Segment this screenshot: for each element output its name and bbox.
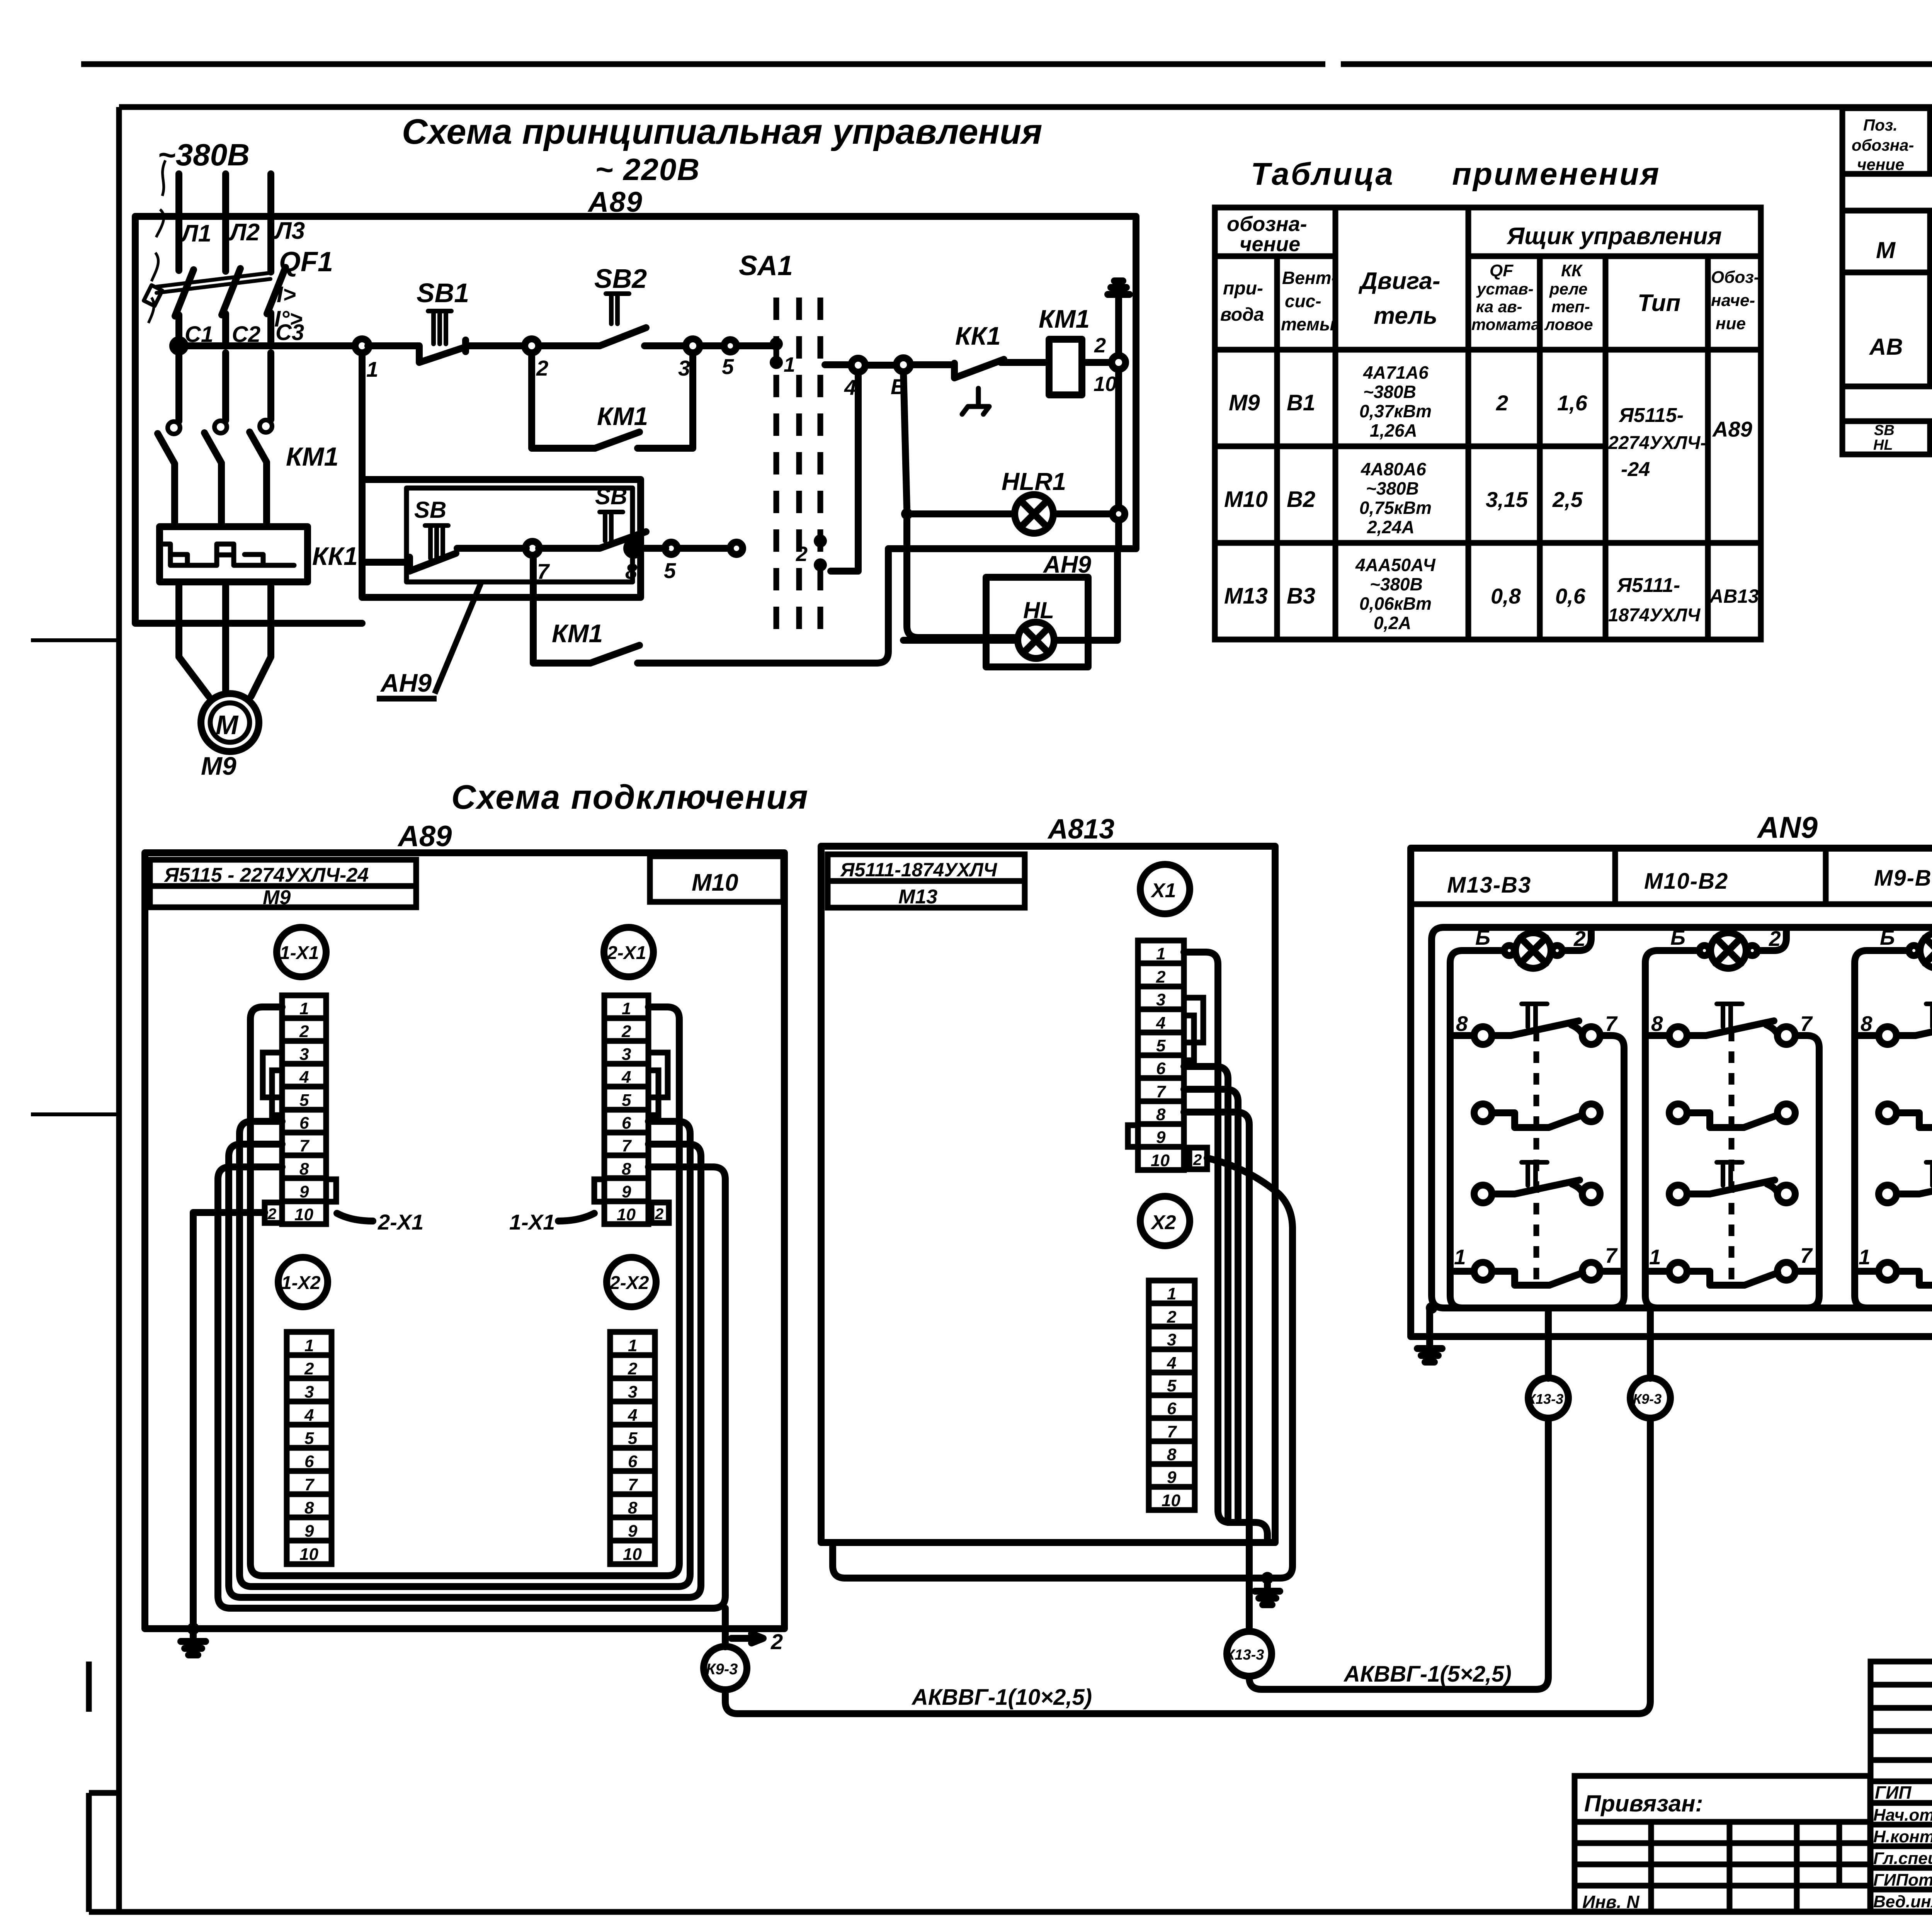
svg-text:SВ: SВ: [595, 483, 627, 509]
svg-text:2: 2: [299, 1022, 309, 1041]
local box AN9 with HL: [986, 577, 1088, 667]
node 8: [627, 541, 641, 555]
svg-text:КМ1: КМ1: [597, 402, 648, 430]
control bus wire: [185, 342, 355, 349]
svg-text:АН9: АН9: [1043, 551, 1092, 578]
mech link dashed М10-В2: [1729, 1030, 1735, 1287]
type label box Я5111: [828, 854, 1025, 908]
svg-text:5: 5: [1167, 1376, 1177, 1395]
svg-text:1: 1: [622, 999, 631, 1018]
svg-text:4: 4: [621, 1068, 631, 1087]
svg-text:тель: тель: [1374, 303, 1437, 329]
svg-text:~380В: ~380В: [158, 138, 250, 172]
svg-text:В2: В2: [1287, 487, 1315, 512]
svg-text:чение: чение: [1857, 155, 1904, 173]
wire SA1 to node 4: [825, 361, 851, 368]
wire Х1 terminal 2 sweep: [1207, 1158, 1293, 1578]
svg-text:6: 6: [1156, 1059, 1166, 1078]
svg-text:наче-: наче-: [1711, 291, 1755, 310]
lamp wires М9-В1: [1855, 927, 1932, 1308]
svg-text:2: 2: [1496, 391, 1508, 415]
svg-text:9: 9: [299, 1182, 309, 1201]
svg-text:1-Х1: 1-Х1: [280, 943, 319, 963]
coil KM1: [1049, 339, 1082, 395]
svg-text:2,24А: 2,24А: [1367, 517, 1415, 537]
svg-text:SВ1: SВ1: [417, 278, 469, 308]
lamp М9-В1: [1909, 933, 1932, 968]
svg-text:2-Х1: 2-Х1: [607, 943, 646, 963]
phase wire Л3: [267, 174, 274, 272]
svg-text:М9: М9: [263, 886, 291, 909]
svg-text:3: 3: [678, 356, 690, 380]
svg-text:при-: при-: [1223, 278, 1263, 299]
svg-text:2,5: 2,5: [1552, 487, 1583, 512]
svg-text:ка ав-: ка ав-: [1476, 298, 1522, 316]
svg-text:А813: А813: [1047, 814, 1114, 845]
node 2: [525, 339, 539, 353]
svg-text:3,15: 3,15: [1486, 487, 1528, 512]
button row3 М10-В2: [1669, 1162, 1795, 1203]
signature rows grid: [1871, 1803, 1932, 1889]
push-button post box AN9: [1411, 848, 1932, 1337]
svg-text:ловое: ловое: [1544, 315, 1593, 333]
wire node2/10 down: [1115, 369, 1122, 507]
svg-text:2: 2: [655, 1206, 663, 1223]
svg-text:2: 2: [1193, 1151, 1202, 1168]
svg-text:7: 7: [304, 1475, 315, 1494]
svg-text:М13: М13: [1224, 583, 1268, 609]
terminal strip 1-Х1: [282, 995, 326, 1224]
svg-text:7: 7: [1605, 1012, 1618, 1036]
terminal strip Х1: [1138, 940, 1184, 1170]
svg-text:Я5111-1874УХЛЧ: Я5111-1874УХЛЧ: [840, 859, 998, 881]
svg-text:Тип: Тип: [1638, 290, 1680, 316]
wire HLR1 row: [913, 510, 1112, 517]
svg-text:К13-3: К13-3: [1226, 1647, 1264, 1663]
svg-text:5: 5: [1156, 1036, 1166, 1055]
title block middle rules: [1871, 1728, 1932, 1781]
svg-text:чение: чение: [1240, 233, 1300, 256]
Привязан block: [1575, 1776, 1870, 1912]
node 1: [355, 339, 369, 353]
svg-text:6: 6: [304, 1452, 314, 1471]
terminal strip 2-Х1: [604, 995, 648, 1224]
svg-text:Н.контр: Н.контр: [1873, 1827, 1932, 1846]
svg-text:АКВВГ-1(10×2,5): АКВВГ-1(10×2,5): [911, 1685, 1092, 1710]
specification table grid: [1842, 108, 1932, 454]
phase wire Л3 lower: [267, 353, 274, 420]
node HLR1 right: [1112, 508, 1125, 520]
AN9 ground: [1426, 1302, 1437, 1314]
title block outline: [1871, 1662, 1932, 1912]
svg-text:К9-3: К9-3: [1633, 1391, 1662, 1407]
svg-text:2: 2: [621, 1022, 631, 1041]
harness marks 1-Х1: [263, 1053, 282, 1115]
circle К9-3 under AN9: [1630, 1378, 1670, 1418]
svg-text:8: 8: [1156, 1105, 1166, 1124]
button row2 М10-В2: [1669, 1104, 1795, 1128]
station button SB' right: [457, 512, 666, 548]
circle К9-3: [704, 1646, 747, 1690]
svg-text:10: 10: [294, 1205, 313, 1224]
row1 stubs М9-В1: [1855, 1036, 1932, 1308]
application table grid: [1215, 207, 1761, 639]
svg-text:6: 6: [628, 1452, 638, 1471]
svg-text:2: 2: [770, 1629, 783, 1654]
svg-text:SВ: SВ: [414, 497, 446, 523]
stop button SB1: [368, 311, 466, 362]
svg-text:АN9: АN9: [1757, 810, 1818, 844]
button row1 М9-В1: [1879, 1004, 1932, 1044]
svg-text:Привязан:: Привязан:: [1584, 1791, 1703, 1816]
svg-text:10: 10: [1094, 372, 1117, 396]
svg-text:НLR1: НLR1: [1002, 468, 1066, 495]
svg-text:7: 7: [622, 1136, 632, 1155]
AN9 header row: [1411, 848, 1932, 904]
lower latch contact KM1: [533, 555, 877, 663]
svg-text:4: 4: [299, 1068, 309, 1087]
motor M9: [201, 694, 259, 752]
button row1 М10-В2: [1669, 1004, 1795, 1044]
svg-text:7: 7: [1605, 1243, 1618, 1267]
svg-text:К13-3: К13-3: [1527, 1391, 1563, 1407]
svg-text:Инв. N: Инв. N: [1582, 1892, 1639, 1912]
svg-text:3: 3: [622, 1045, 631, 1064]
svg-text:Б: Б: [1670, 925, 1685, 949]
svg-text:QF1: QF1: [279, 247, 333, 277]
svg-text:Поз.: Поз.: [1863, 116, 1898, 134]
svg-text:7: 7: [537, 559, 550, 583]
svg-text:8: 8: [1861, 1012, 1872, 1036]
svg-text:10: 10: [1151, 1151, 1170, 1170]
svg-text:4АА50АЧ: 4АА50АЧ: [1355, 555, 1436, 575]
svg-text:1: 1: [366, 357, 378, 381]
svg-text:~ 220В: ~ 220В: [595, 152, 700, 187]
svg-text:В1: В1: [1287, 390, 1315, 415]
lamp wires М13-В3: [1450, 927, 1591, 1308]
svg-text:Л3: Л3: [274, 218, 305, 244]
svg-text:8: 8: [1456, 1012, 1468, 1036]
pencil margin note: [148, 160, 165, 323]
thermal relay KK1 heaters: [160, 527, 308, 582]
circuit breaker QF1: [144, 267, 286, 346]
svg-text:2: 2: [267, 1206, 276, 1223]
svg-text:9: 9: [628, 1522, 638, 1541]
terminal strip 2-Х2: [610, 1332, 655, 1564]
svg-text:А89: А89: [1712, 417, 1752, 441]
svg-text:КК: КК: [1561, 261, 1583, 280]
wire node4 down to SA1 contact2: [831, 372, 858, 571]
svg-text:6: 6: [299, 1114, 309, 1133]
terminal 2 box right of Х1: [1189, 1148, 1207, 1169]
title block revision grid: [1871, 1662, 1932, 1912]
svg-text:0,2А: 0,2А: [1374, 613, 1411, 633]
svg-text:1: 1: [784, 353, 795, 376]
svg-text:Б: Б: [1880, 925, 1895, 949]
svg-text:3: 3: [628, 1383, 637, 1401]
button row2 М9-В1: [1879, 1104, 1932, 1128]
push-button station box double border: [362, 480, 641, 597]
svg-text:10: 10: [617, 1205, 636, 1224]
terminal strip 1-Х2: [287, 1332, 332, 1564]
svg-text:М9: М9: [201, 752, 236, 780]
svg-text:КМ1: КМ1: [1039, 304, 1090, 333]
lug left of strip Х1: [1128, 1125, 1138, 1147]
AN9 exits to cable circles: [1548, 1308, 1650, 1378]
svg-text:2274УХЛЧ-: 2274УХЛЧ-: [1608, 433, 1706, 453]
svg-text:АВ13: АВ13: [1709, 585, 1759, 607]
button row4 М10-В2: [1669, 1262, 1795, 1285]
svg-text:8: 8: [628, 1498, 638, 1517]
ground below A813: [1255, 1578, 1280, 1605]
svg-text:5: 5: [722, 354, 734, 379]
circle 2-Х1: [604, 927, 653, 977]
svg-text:2: 2: [796, 543, 808, 566]
svg-text:Гл.спец.: Гл.спец.: [1873, 1849, 1932, 1868]
svg-text:5: 5: [664, 558, 676, 583]
svg-text:1: 1: [628, 1336, 637, 1355]
lamp М13-В3: [1504, 933, 1562, 968]
selector switch SA1 dashed lines: [776, 298, 820, 634]
circle Х2: [1140, 1196, 1190, 1246]
svg-text:7: 7: [1156, 1082, 1167, 1101]
svg-text:КМ1: КМ1: [552, 619, 603, 648]
svg-text:Таблица: Таблица: [1251, 156, 1395, 192]
row4 stubs М10-В2: [1645, 1268, 1819, 1275]
svg-text:применения: применения: [1452, 156, 1661, 192]
circle К13-3 under A813: [1227, 1631, 1272, 1676]
svg-text:КК1: КК1: [312, 542, 358, 570]
svg-text:6: 6: [622, 1114, 631, 1133]
svg-text:Схема принципиальная управле: Схема принципиальная управления: [402, 112, 1042, 151]
svg-text:0,8: 0,8: [1491, 584, 1521, 608]
svg-text:Схема подключения: Схема подключения: [451, 778, 809, 816]
leader 1-Х1: [558, 1213, 594, 1221]
ground upper right: [1108, 281, 1129, 355]
svg-text:8: 8: [299, 1160, 309, 1179]
circle 1-Х1: [277, 927, 326, 977]
svg-text:вода: вода: [1220, 304, 1264, 325]
svg-text:КМ1: КМ1: [286, 442, 338, 471]
wire node1 down: [359, 353, 366, 480]
control box A89 outline: [135, 216, 1136, 623]
svg-text:Л2: Л2: [228, 219, 260, 246]
lug right of strip 1-Х1: [326, 1179, 336, 1202]
sheet top edge line: [81, 61, 1932, 67]
start button SB2: [539, 294, 686, 346]
terminal 2 box right of 2-Х1: [651, 1202, 669, 1223]
lamp HLR1: [1015, 495, 1053, 533]
row4 stubs М13-В3: [1450, 1268, 1624, 1275]
svg-text:КК1: КК1: [955, 321, 1001, 350]
svg-text:SА1: SА1: [739, 250, 793, 281]
svg-text:Ящик управления: Ящик управления: [1506, 223, 1722, 250]
svg-text:1,6: 1,6: [1557, 391, 1588, 415]
wire lower return: [875, 549, 1136, 663]
svg-text:К9-3: К9-3: [706, 1661, 738, 1678]
svg-text:2: 2: [1167, 1308, 1177, 1327]
button row3 М13-В3: [1474, 1162, 1600, 1203]
svg-text:Вед.инж.: Вед.инж.: [1873, 1892, 1932, 1911]
svg-text:С3: С3: [276, 320, 304, 345]
svg-text:обозна-: обозна-: [1227, 213, 1307, 236]
lamp HL: [1018, 622, 1054, 658]
svg-text:3: 3: [304, 1383, 314, 1401]
svg-text:8: 8: [304, 1498, 314, 1517]
wires A813 bottom exit: [833, 1543, 1267, 1631]
svg-text:1: 1: [299, 999, 309, 1018]
svg-text:9: 9: [1167, 1468, 1177, 1487]
svg-text:Обоз-: Обоз-: [1711, 268, 1759, 287]
harness marks 2-Х1: [648, 1053, 668, 1115]
svg-text:8: 8: [622, 1160, 631, 1179]
circle Х1: [1140, 864, 1190, 914]
wire station to SA1 lower: [641, 545, 730, 552]
svg-text:3: 3: [1156, 990, 1165, 1009]
svg-text:4: 4: [844, 375, 856, 400]
AN9 inner wiring ring: [1432, 927, 1932, 1308]
svg-text:1: 1: [1454, 1245, 1466, 1269]
svg-text:устав-: устав-: [1476, 280, 1534, 298]
svg-text:1874УХЛЧ: 1874УХЛЧ: [1608, 605, 1701, 626]
svg-text:М10: М10: [1224, 487, 1268, 512]
svg-text:Вент-: Вент-: [1282, 268, 1337, 288]
svg-text:М10: М10: [692, 869, 738, 896]
lug left of strip 2-Х1: [594, 1179, 604, 1202]
wire HL lamp branch: [903, 549, 1117, 640]
svg-text:1: 1: [1156, 944, 1165, 963]
row4 stubs М9-В1: [1855, 1268, 1932, 1275]
svg-text:10: 10: [1162, 1491, 1180, 1510]
svg-text:4: 4: [1167, 1354, 1176, 1372]
svg-text:1-Х2: 1-Х2: [281, 1273, 321, 1293]
svg-text:9: 9: [1156, 1128, 1166, 1147]
svg-text:М9-В1: М9-В1: [1874, 866, 1932, 891]
phase wire Л1: [175, 174, 182, 270]
cable АКВВГ-1(10х2,5): [725, 1418, 1650, 1714]
node 5: [724, 340, 736, 352]
terminal circle before SA1 lower: [730, 542, 743, 554]
svg-text:Х2: Х2: [1150, 1211, 1176, 1234]
node 5 lower: [665, 542, 677, 554]
svg-text:реле: реле: [1549, 280, 1587, 298]
wire coil to node 2/10: [1082, 359, 1112, 366]
SA1 contact 1 dots: [770, 337, 783, 350]
svg-text:томата: томата: [1471, 315, 1540, 333]
station button SB' left: [363, 526, 456, 571]
svg-text:А89: А89: [397, 820, 452, 853]
svg-text:1-Х1: 1-Х1: [509, 1210, 555, 1234]
svg-text:0,6: 0,6: [1555, 584, 1586, 608]
wires from strip 1-Х1: [218, 1007, 725, 1608]
svg-text:9: 9: [304, 1522, 314, 1541]
svg-text:2-Х2: 2-Х2: [609, 1273, 649, 1293]
button row3 М9-В1: [1879, 1162, 1932, 1203]
latch contact KM1: [532, 353, 693, 448]
svg-text:1: 1: [1167, 1284, 1176, 1303]
arrow 2 at A89 exit: [731, 1634, 763, 1643]
svg-text:8: 8: [625, 559, 638, 583]
svg-text:-24: -24: [1621, 458, 1650, 481]
svg-text:6: 6: [1167, 1399, 1177, 1418]
circle К13-3 under AN9: [1528, 1378, 1568, 1418]
button row2 М13-В3: [1474, 1104, 1600, 1128]
svg-text:8: 8: [1167, 1445, 1177, 1464]
leader АН9 station: [435, 583, 481, 694]
svg-text:обозна-: обозна-: [1852, 136, 1914, 154]
svg-text:5: 5: [304, 1429, 314, 1448]
wire node3 to node5: [700, 342, 724, 349]
junction dot ground A89: [187, 1622, 199, 1635]
svg-text:сис-: сис-: [1285, 291, 1321, 311]
svg-text:АКВВГ-1(5×2,5): АКВВГ-1(5×2,5): [1343, 1662, 1512, 1687]
svg-text:ние: ние: [1716, 314, 1746, 333]
svg-text:~380В: ~380В: [1366, 478, 1419, 498]
svg-text:5: 5: [299, 1091, 309, 1110]
lamp wires М10-В2: [1645, 927, 1786, 1308]
svg-text:М13-В3: М13-В3: [1447, 872, 1531, 898]
phase wire Л2: [222, 174, 229, 271]
node 2/10: [1112, 355, 1126, 369]
svg-text:5: 5: [628, 1429, 638, 1448]
svg-text:2: 2: [536, 356, 548, 380]
node Б: [896, 358, 910, 372]
svg-text:3: 3: [1167, 1330, 1176, 1349]
svg-text:Я5115-: Я5115-: [1618, 404, 1684, 427]
svg-text:Х1: Х1: [1150, 879, 1176, 902]
svg-text:1: 1: [1859, 1245, 1871, 1269]
svg-text:теп-: теп-: [1551, 298, 1590, 316]
svg-text:1: 1: [304, 1336, 314, 1355]
svg-text:3: 3: [299, 1045, 309, 1064]
svg-text:2: 2: [1156, 968, 1166, 986]
ground below A89: [181, 1629, 206, 1655]
svg-text:2: 2: [304, 1359, 314, 1378]
svg-text:М: М: [1876, 237, 1896, 263]
type label box Я5115: [150, 860, 416, 907]
phase wire Л2 lower: [222, 353, 229, 420]
svg-text:Нач.отд.: Нач.отд.: [1873, 1806, 1932, 1825]
svg-text:М: М: [216, 710, 239, 740]
thermal contact KK1: [910, 359, 1049, 414]
svg-text:9: 9: [622, 1182, 631, 1201]
svg-text:SВ2: SВ2: [594, 264, 647, 294]
svg-text:ГИП: ГИП: [1875, 1782, 1912, 1803]
svg-text:1,26А: 1,26А: [1370, 420, 1417, 440]
svg-text:10: 10: [623, 1545, 642, 1564]
circle 2-Х2: [607, 1257, 656, 1307]
junction dot HLR1 left: [901, 508, 913, 520]
motor feeder wires: [179, 582, 271, 696]
wire Б down: [903, 372, 1017, 638]
row1 stubs М13-В3: [1450, 1036, 1624, 1308]
svg-text:5: 5: [622, 1091, 631, 1110]
svg-text:0,75кВт: 0,75кВт: [1359, 498, 1432, 518]
svg-text:SВ: SВ: [1874, 422, 1895, 439]
node 4: [851, 358, 865, 372]
svg-text:М10-В2: М10-В2: [1644, 869, 1728, 894]
svg-text:Б: Б: [1475, 925, 1490, 949]
phase wire Л1 lower: [175, 353, 182, 421]
svg-text:НL: НL: [1873, 437, 1893, 453]
harness marks Х1: [1184, 998, 1203, 1060]
wire HLR1 node down: [1115, 520, 1122, 549]
svg-text:7: 7: [1800, 1012, 1813, 1036]
svg-text:Я5111-: Я5111-: [1616, 574, 1680, 597]
svg-text:0,06кВт: 0,06кВт: [1359, 594, 1432, 614]
svg-text:4А80А6: 4А80А6: [1361, 459, 1426, 479]
svg-text:7: 7: [1167, 1422, 1177, 1441]
